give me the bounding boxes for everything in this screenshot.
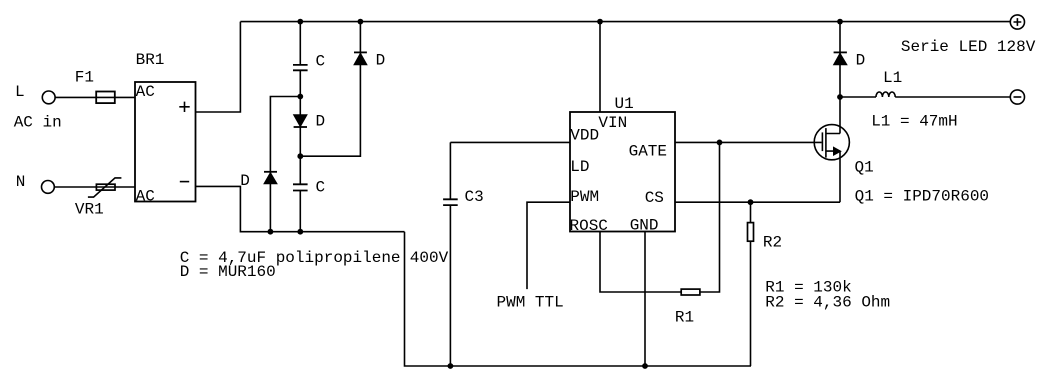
svg-text:BR1: BR1 — [136, 51, 165, 69]
svg-text:Q1: Q1 — [855, 159, 874, 177]
svg-text:D: D — [376, 52, 386, 70]
wire PWM input — [527, 202, 570, 289]
wire CS line — [675, 201, 840, 203]
capacitor C3 — [449, 142, 451, 366]
svg-text:GATE: GATE — [629, 143, 667, 161]
BR1 minus mark — [180, 181, 189, 183]
node junction above bottom C — [297, 153, 303, 159]
svg-text:GND: GND — [630, 216, 659, 234]
wire N to varistor — [54, 186, 96, 188]
wire ROSC to R1 — [600, 232, 681, 293]
svg-text:D = MUR160: D = MUR160 — [180, 263, 276, 281]
wire valley-fill riser — [299, 22, 301, 232]
diode D (left, pointing up) — [264, 171, 277, 173]
svg-text:PWM TTL: PWM TTL — [497, 293, 564, 311]
svg-text:400V: 400V — [410, 249, 449, 267]
wire left diode branch — [270, 97, 300, 232]
svg-text:L1 = 47mH: L1 = 47mH — [871, 112, 957, 130]
terminal output plus — [1010, 15, 1024, 29]
svg-text:C: C — [316, 53, 326, 71]
svg-text:C3: C3 — [465, 188, 484, 206]
wire BR1 minus output — [196, 186, 405, 231]
svg-text:R2: R2 — [763, 234, 782, 252]
svg-text:D: D — [240, 172, 250, 190]
wire bottom rail — [405, 232, 752, 366]
wire L to fuse — [55, 96, 96, 98]
resistor R1 — [681, 289, 700, 295]
wire Q1 source riser — [839, 151, 841, 202]
svg-text:LD: LD — [570, 158, 589, 176]
terminal output minus — [1010, 90, 1024, 104]
svg-text:R2 = 4,36 Ohm: R2 = 4,36 Ohm — [765, 294, 890, 312]
node junction below top C — [297, 94, 303, 100]
op-amp U1 (controller IC) — [570, 112, 675, 232]
node junction CS line at R2 — [748, 199, 754, 205]
wire right diode riser — [300, 22, 360, 157]
diode D (middle, pointing down) — [294, 115, 307, 127]
node junction at C branch bottom — [297, 229, 303, 235]
svg-text:ROSC: ROSC — [570, 217, 608, 235]
node junction at left diode bottom — [268, 229, 274, 235]
svg-text:AC: AC — [136, 188, 155, 206]
wire top rail — [240, 21, 1010, 23]
svg-text:F1: F1 — [75, 69, 94, 87]
diode D (top right, pointing up) — [354, 51, 367, 53]
diode D (output, pointing up) — [839, 22, 841, 97]
svg-text:VDD: VDD — [570, 127, 599, 145]
svg-text:C: C — [316, 179, 326, 197]
wire fuse to BR1 — [115, 96, 135, 98]
node junction top rail at VIN — [597, 19, 603, 25]
wire varistor to BR1 — [115, 186, 135, 188]
svg-text:CS: CS — [645, 189, 664, 207]
svg-text:VIN: VIN — [598, 114, 627, 132]
wire BR1 plus output — [196, 22, 241, 112]
node junction top rail at output diode — [837, 19, 843, 25]
wire VIN riser — [599, 22, 601, 112]
node junction gate line — [717, 140, 723, 146]
node junction top rail at C branch — [297, 19, 303, 25]
capacitor C (top) — [293, 65, 308, 70]
wire GND to bottom rail — [644, 232, 646, 367]
node junction at Q1 drain / L1 — [837, 94, 843, 100]
wire GATE to Q1 — [675, 141, 822, 143]
terminal N — [42, 181, 55, 194]
wire VDD to C3 — [450, 141, 570, 143]
resistor R2 — [750, 202, 752, 222]
node junction bottom rail at C3 — [448, 363, 454, 369]
node junction bottom rail at GND — [642, 363, 648, 369]
fuse F1 — [96, 92, 115, 104]
svg-text:Q1 = IPD70R600: Q1 = IPD70R600 — [855, 188, 989, 206]
svg-text:AC in: AC in — [14, 113, 62, 131]
node junction top rail at D branch — [358, 19, 364, 25]
svg-text:VR1: VR1 — [75, 201, 104, 219]
svg-text:D: D — [316, 112, 326, 130]
transistor Q1 (MOSFET) — [814, 125, 849, 160]
svg-text:R1: R1 — [675, 308, 694, 326]
bridge rectifier BR1 — [135, 82, 196, 202]
wire Q1 drain riser — [839, 97, 841, 134]
svg-text:L1: L1 — [883, 69, 902, 87]
inductor L1 — [840, 96, 876, 98]
svg-text:AC: AC — [136, 83, 155, 101]
capacitor C (bottom) — [293, 184, 308, 190]
svg-text:U1: U1 — [615, 95, 634, 113]
svg-text:PWM: PWM — [570, 188, 599, 206]
svg-text:N: N — [16, 173, 26, 191]
svg-text:D: D — [856, 52, 866, 70]
svg-text:L: L — [15, 83, 25, 101]
wire R1 to gate line — [700, 142, 720, 292]
BR1 plus mark — [179, 102, 189, 112]
varistor VR1 — [96, 184, 115, 190]
svg-text:Serie LED 128V: Serie LED 128V — [901, 38, 1036, 56]
terminal L — [42, 91, 55, 104]
